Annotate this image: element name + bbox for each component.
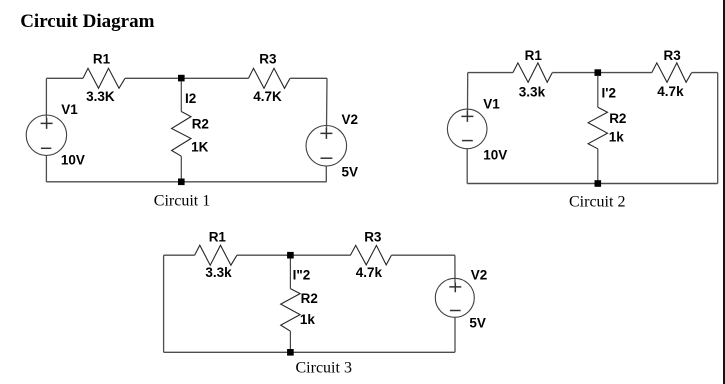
- svg-text:V2: V2: [342, 112, 359, 127]
- svg-text:4.7k: 4.7k: [657, 84, 684, 99]
- svg-text:R1: R1: [209, 229, 227, 244]
- svg-text:5V: 5V: [469, 316, 486, 331]
- svg-text:R3: R3: [364, 229, 382, 244]
- svg-text:I'2: I'2: [602, 86, 616, 101]
- resistor R1 (circuit 3): [195, 245, 237, 265]
- resistor R1 (circuit 1): [83, 68, 125, 88]
- voltage source V2 (circuit 1): [306, 126, 347, 167]
- wire node to R2 C3: [289, 259, 291, 289]
- wire left lower C2: [466, 149, 468, 184]
- wire right lower C3: [454, 317, 456, 352]
- wire top-left segment C2: [468, 72, 513, 74]
- wire left upper C2: [467, 73, 469, 112]
- wire left upper C1: [45, 78, 47, 118]
- resistor R3 (circuit 2): [652, 63, 692, 82]
- wire right upper C1: [326, 78, 329, 128]
- wire top-left segment C1: [46, 77, 83, 79]
- resistor R1 (circuit 2): [513, 63, 552, 82]
- wire right upper C3: [454, 255, 456, 283]
- svg-text:I"2: I"2: [293, 267, 311, 282]
- wire top-right segment C3: [391, 254, 455, 256]
- svg-text:I2: I2: [185, 91, 196, 106]
- wire left lower C1: [45, 155, 47, 181]
- resistor R2 (circuit 1) vertical: [172, 112, 191, 157]
- wire top-mid segment C2: [552, 72, 652, 74]
- V2 plus sign C3: [449, 283, 461, 293]
- svg-text:V2: V2: [471, 267, 488, 282]
- resistor R2 (circuit 3) vertical: [281, 289, 300, 332]
- V1 plus sign: [41, 118, 53, 129]
- svg-text:10V: 10V: [483, 147, 507, 162]
- V1 plus sign C2: [461, 111, 473, 122]
- svg-text:Circuit 3: Circuit 3: [296, 360, 352, 377]
- voltage source V1 (circuit 1): [26, 115, 66, 155]
- wire bottom C1: [46, 181, 326, 183]
- V1 minus sign: [41, 147, 51, 149]
- wire right lower C1: [325, 166, 327, 182]
- svg-text:R3: R3: [259, 52, 277, 67]
- svg-text:4.7k: 4.7k: [356, 265, 383, 280]
- wire bottom C2: [467, 183, 718, 185]
- svg-text:V1: V1: [61, 102, 78, 117]
- svg-text:3.3K: 3.3K: [86, 89, 115, 104]
- V2 minus sign C3: [450, 310, 461, 312]
- resistor R3 (circuit 1): [249, 68, 291, 88]
- voltage source V1 (circuit 2): [447, 109, 487, 149]
- svg-text:4.7K: 4.7K: [253, 89, 282, 104]
- wire top-right segment C1: [290, 77, 327, 79]
- wire top-mid segment C1: [125, 77, 249, 79]
- svg-text:R1: R1: [93, 52, 111, 67]
- svg-text:10V: 10V: [61, 152, 85, 167]
- resistor R2 (circuit 2) vertical: [588, 107, 607, 149]
- svg-text:V1: V1: [483, 97, 500, 112]
- svg-text:1k: 1k: [300, 312, 316, 327]
- svg-text:Circuit 2: Circuit 2: [569, 193, 625, 210]
- resistor R3 (circuit 3): [350, 245, 391, 265]
- svg-text:R2: R2: [301, 291, 318, 306]
- node bottom of R2 C2: [595, 180, 602, 187]
- wire R2 to bottom node C2: [597, 149, 599, 184]
- page border right: [723, 0, 725, 384]
- voltage source V2 (circuit 3): [435, 278, 474, 317]
- V1 minus sign C2: [462, 140, 473, 142]
- wire top-mid segment C3: [237, 254, 351, 256]
- wire top-left segment C3: [164, 254, 195, 256]
- svg-text:3.3k: 3.3k: [205, 265, 232, 280]
- wire left C3: [163, 255, 165, 352]
- wire right C2: [717, 73, 719, 184]
- V2 plus sign: [320, 128, 332, 139]
- wire R2 to bottom node C3: [289, 331, 291, 352]
- svg-text:1K: 1K: [191, 139, 209, 154]
- wire top-right segment C2: [692, 72, 718, 74]
- svg-text:Circuit Diagram: Circuit Diagram: [20, 11, 154, 32]
- svg-text:5V: 5V: [342, 165, 359, 180]
- wire node to R2 C1: [180, 81, 182, 111]
- node bottom of R2 C1: [178, 179, 185, 186]
- svg-text:R1: R1: [525, 48, 543, 63]
- wire R2 to bottom node C1: [180, 156, 182, 182]
- svg-text:1k: 1k: [609, 130, 625, 145]
- svg-text:R2: R2: [609, 111, 626, 126]
- V2 minus sign: [321, 157, 333, 159]
- svg-text:3.3k: 3.3k: [519, 85, 546, 100]
- node top of R2 C1: [178, 75, 185, 82]
- svg-text:R3: R3: [664, 48, 682, 63]
- node top of R2 C3: [287, 252, 294, 259]
- svg-text:Circuit 1: Circuit 1: [154, 193, 210, 210]
- node top of R2 C2: [595, 69, 602, 76]
- node bottom of R2 C3: [287, 349, 294, 356]
- wire bottom C3: [164, 351, 455, 353]
- svg-text:R2: R2: [192, 117, 209, 132]
- wire node to R2 C2: [597, 76, 599, 107]
